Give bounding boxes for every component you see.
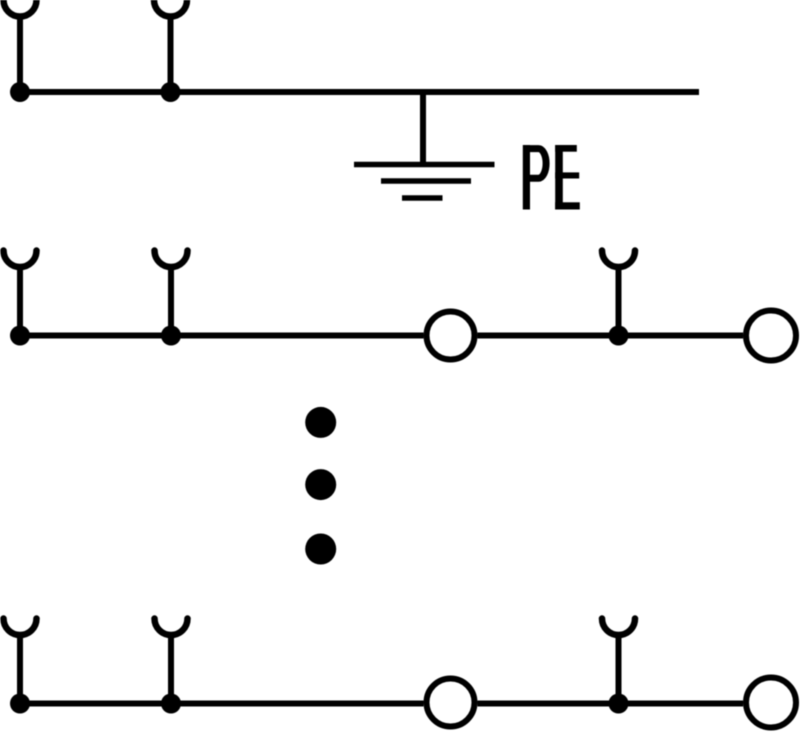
socket contact X2.3 (middle row) (602, 251, 635, 268)
wire stem X2.2 (168, 267, 174, 336)
junction node bottom row at Xn.2 (161, 694, 181, 714)
ellipsis dot 2 (repetition marker) (305, 469, 336, 500)
label PE (523, 145, 580, 210)
socket contact Xn.1 (bottom row) (4, 619, 37, 636)
wire stem X1.1 (17, 17, 23, 93)
wire bus (middle row, left segment) (20, 333, 424, 339)
terminal circle (middle row, right end) (746, 311, 796, 361)
wire stem X1.2 (168, 17, 174, 93)
socket contact X1.2 (top row, cut at top edge) (154, 0, 187, 17)
junction node middle row at X2.1 (10, 326, 30, 346)
terminal circle (bottom row, inner) (427, 679, 475, 727)
wire stem Xn.1 (17, 635, 23, 704)
junction node bottom row at Xn.3 (609, 694, 629, 714)
wire to earth symbol (420, 92, 426, 165)
junction node on PE bus at X1.1 (10, 82, 30, 102)
ellipsis dot 1 (repetition marker) (305, 407, 336, 438)
junction node on PE bus at X1.2 (161, 82, 181, 102)
wire bus (bottom row, right segment) (478, 701, 744, 707)
wire stem X2.3 (616, 267, 622, 336)
junction node middle row at X2.2 (161, 326, 181, 346)
wire bus (middle row, right segment) (478, 333, 744, 339)
socket contact X2.1 (middle row) (4, 251, 37, 268)
socket contact X1.1 (top row, cut at top edge) (4, 0, 37, 17)
socket contact Xn.2 (bottom row) (155, 619, 188, 636)
wire stem Xn.2 (168, 635, 174, 704)
ellipsis dot 3 (repetition marker) (305, 534, 336, 565)
wire PE bus (top) (20, 89, 699, 95)
terminal circle (bottom row, right end) (746, 678, 796, 728)
wire bus (bottom row, left segment) (20, 701, 424, 707)
terminal circle (middle row, inner) (427, 312, 475, 360)
socket contact Xn.3 (bottom row) (602, 619, 635, 636)
ground (protective earth symbol) (354, 165, 495, 199)
junction node bottom row at Xn.1 (10, 694, 30, 714)
socket contact X2.2 (middle row) (155, 251, 188, 268)
wire stem X2.1 (17, 267, 23, 336)
junction node middle row at X2.3 (609, 326, 629, 346)
wire stem Xn.3 (616, 635, 622, 704)
